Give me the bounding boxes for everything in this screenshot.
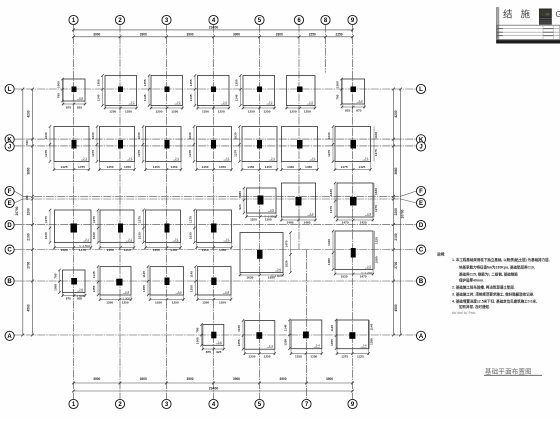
svg-text:1450: 1450 bbox=[153, 248, 160, 252]
svg-text:3900: 3900 bbox=[326, 377, 333, 381]
svg-text:1145: 1145 bbox=[330, 325, 334, 332]
title block bbox=[496, 8, 560, 44]
svg-text:1250: 1250 bbox=[219, 300, 226, 304]
bottom axis bubbles 1-5,7,9 bbox=[69, 399, 78, 408]
svg-text:1525: 1525 bbox=[341, 275, 348, 279]
svg-text:3900: 3900 bbox=[186, 32, 193, 36]
footing J-3 @FE6 bbox=[280, 183, 316, 225]
svg-text:1250: 1250 bbox=[172, 300, 179, 304]
svg-text:1630: 1630 bbox=[285, 260, 289, 267]
svg-text:875: 875 bbox=[66, 297, 71, 301]
footing J-4 @L1 bbox=[57, 78, 87, 110]
footing J-4 @B4 bbox=[190, 265, 233, 304]
svg-text:1145: 1145 bbox=[92, 271, 96, 278]
svg-text:1355: 1355 bbox=[370, 338, 374, 345]
svg-text:2700: 2700 bbox=[26, 261, 30, 268]
svg-text:3300: 3300 bbox=[276, 32, 283, 36]
photo/stamp block bbox=[539, 9, 552, 25]
svg-text:J-1: J-1 bbox=[175, 157, 179, 161]
svg-text:1270: 1270 bbox=[44, 150, 48, 157]
svg-text:J-5: J-5 bbox=[270, 208, 274, 212]
svg-text:J-1: J-1 bbox=[85, 238, 89, 242]
footing J-1 @D2 bbox=[92, 209, 135, 252]
svg-text:1355: 1355 bbox=[237, 339, 241, 346]
svg-text:如有异常, 及时通知.: 如有异常, 及时通知. bbox=[459, 304, 490, 309]
svg-text:1250: 1250 bbox=[290, 109, 297, 113]
svg-text:1005: 1005 bbox=[57, 81, 61, 88]
notes block 说明 bbox=[437, 252, 550, 316]
svg-text:20700: 20700 bbox=[401, 209, 405, 218]
svg-text:L: L bbox=[419, 87, 423, 93]
svg-text:1450: 1450 bbox=[202, 248, 209, 252]
svg-text:2100: 2100 bbox=[26, 233, 30, 240]
footing J-1 @KJ4 bbox=[188, 125, 233, 171]
svg-text:1355: 1355 bbox=[235, 79, 239, 86]
svg-text:C: C bbox=[7, 248, 12, 254]
svg-text:1250: 1250 bbox=[264, 354, 271, 358]
svg-text:1270: 1270 bbox=[374, 205, 378, 212]
svg-text:1320: 1320 bbox=[375, 237, 379, 244]
footing J-4 @A5 bbox=[237, 319, 276, 358]
svg-text:3860: 3860 bbox=[26, 167, 30, 174]
svg-text:J-1: J-1 bbox=[311, 157, 315, 161]
svg-text:1005: 1005 bbox=[336, 81, 340, 88]
title block table bbox=[497, 25, 560, 39]
left overall dimension 20700 bbox=[22, 89, 24, 335]
svg-text:1270: 1270 bbox=[234, 150, 238, 157]
svg-text:1355: 1355 bbox=[284, 339, 288, 346]
svg-text:23400: 23400 bbox=[209, 25, 219, 29]
footing J-1 @KJ2 bbox=[91, 125, 136, 171]
svg-text:1250: 1250 bbox=[202, 109, 209, 113]
svg-text:4200: 4200 bbox=[394, 110, 398, 117]
footing J-2 @L2 bbox=[97, 74, 138, 113]
footing J-1 @KJ9 bbox=[327, 125, 372, 171]
svg-text:1080: 1080 bbox=[375, 256, 379, 263]
svg-text:J-1: J-1 bbox=[225, 157, 229, 161]
svg-text:1630: 1630 bbox=[137, 132, 141, 139]
svg-text:L: L bbox=[8, 87, 12, 93]
svg-text:1460: 1460 bbox=[287, 221, 294, 225]
svg-text:1270: 1270 bbox=[189, 216, 193, 223]
right overall dimension 20700 bbox=[400, 89, 402, 335]
svg-text:3900: 3900 bbox=[140, 32, 147, 36]
svg-text:1270: 1270 bbox=[137, 150, 141, 157]
svg-text:1250: 1250 bbox=[304, 109, 311, 113]
svg-text:1270: 1270 bbox=[91, 150, 95, 157]
footing J-2 @L5 bbox=[235, 74, 276, 113]
svg-text:925: 925 bbox=[345, 108, 350, 112]
svg-text:1250: 1250 bbox=[155, 300, 162, 304]
svg-text:1450: 1450 bbox=[171, 165, 178, 169]
svg-text:1650: 1650 bbox=[268, 276, 275, 280]
horizontal axis grid lines bbox=[14, 88, 416, 90]
svg-text:1250: 1250 bbox=[310, 354, 317, 358]
svg-text:1450: 1450 bbox=[170, 248, 177, 252]
svg-text:1475: 1475 bbox=[341, 165, 348, 169]
svg-text:1460: 1460 bbox=[287, 165, 294, 169]
svg-text:1250: 1250 bbox=[202, 300, 209, 304]
svg-text:1250: 1250 bbox=[249, 354, 256, 358]
svg-text:1630: 1630 bbox=[44, 132, 48, 139]
svg-text:1145: 1145 bbox=[189, 94, 193, 101]
svg-text:1420: 1420 bbox=[61, 248, 68, 252]
svg-text:1470: 1470 bbox=[285, 240, 289, 247]
svg-text:795: 795 bbox=[57, 93, 61, 98]
svg-text:4200: 4200 bbox=[26, 110, 30, 117]
footing J-6 @B1 bbox=[54, 269, 87, 301]
footing J-2 @C9 bbox=[327, 230, 374, 279]
footing J-1 @D3 bbox=[138, 209, 182, 252]
footing J-6 @A4 bbox=[196, 323, 226, 354]
svg-text:1250: 1250 bbox=[122, 300, 129, 304]
svg-text:1275: 1275 bbox=[341, 354, 348, 358]
svg-text:1630: 1630 bbox=[138, 232, 142, 239]
svg-text:1630: 1630 bbox=[327, 132, 331, 139]
svg-text:J: J bbox=[8, 145, 11, 151]
svg-text:1355: 1355 bbox=[97, 79, 101, 86]
svg-text:925: 925 bbox=[216, 350, 221, 354]
svg-text:1450: 1450 bbox=[202, 165, 209, 169]
svg-text:D: D bbox=[419, 223, 424, 229]
svg-text:结施: 结施 bbox=[503, 9, 538, 21]
svg-text:1145: 1145 bbox=[143, 94, 147, 101]
svg-text:1630: 1630 bbox=[329, 189, 333, 196]
svg-text:1450: 1450 bbox=[124, 248, 131, 252]
svg-text:1475: 1475 bbox=[360, 275, 367, 279]
svg-text:2700: 2700 bbox=[394, 261, 398, 268]
svg-text:20700: 20700 bbox=[15, 206, 19, 215]
footing J-1 @KJ1 bbox=[44, 125, 90, 171]
svg-text:1630: 1630 bbox=[44, 232, 48, 239]
svg-text:1630: 1630 bbox=[92, 232, 96, 239]
footing J-1 @KJ3 bbox=[137, 125, 182, 171]
svg-text:3860: 3860 bbox=[394, 167, 398, 174]
svg-text:1355: 1355 bbox=[92, 285, 96, 292]
svg-text:1630: 1630 bbox=[374, 188, 378, 195]
svg-text:3900: 3900 bbox=[93, 377, 100, 381]
svg-text:4. 基础埋置深度≥2.5米下归, 基础定位见建筑施工0.0: 4. 基础埋置深度≥2.5米下归, 基础定位见建筑施工0.0米, bbox=[452, 299, 537, 304]
bottom overall dimension 23400 bbox=[74, 390, 353, 392]
svg-text:1450: 1450 bbox=[265, 165, 272, 169]
footing J-4 @L9 bbox=[336, 78, 366, 113]
svg-text:1270: 1270 bbox=[44, 216, 48, 223]
svg-text:4500: 4500 bbox=[26, 304, 30, 311]
svg-text:1145: 1145 bbox=[284, 324, 288, 331]
svg-text:1250: 1250 bbox=[248, 109, 255, 113]
svg-text:1355: 1355 bbox=[143, 79, 147, 86]
svg-text:1470: 1470 bbox=[79, 248, 86, 252]
svg-text:795: 795 bbox=[196, 327, 200, 332]
svg-text:1460: 1460 bbox=[305, 165, 312, 169]
svg-text:1250: 1250 bbox=[156, 109, 163, 113]
footing J-1 @D1 bbox=[44, 209, 92, 252]
svg-text:1460: 1460 bbox=[304, 221, 311, 225]
svg-text:1475: 1475 bbox=[78, 165, 85, 169]
svg-text:1630: 1630 bbox=[188, 132, 192, 139]
svg-text:3900: 3900 bbox=[186, 377, 193, 381]
svg-text:1250: 1250 bbox=[106, 300, 113, 304]
svg-text:1320: 1320 bbox=[327, 239, 331, 246]
svg-text:1270: 1270 bbox=[329, 206, 333, 213]
svg-text:2200: 2200 bbox=[394, 208, 398, 215]
svg-text:1145: 1145 bbox=[190, 271, 194, 278]
footing J-4 @B3 bbox=[142, 265, 185, 304]
svg-text:220: 220 bbox=[25, 195, 29, 200]
svg-text:1250: 1250 bbox=[295, 354, 302, 358]
svg-text:1270: 1270 bbox=[138, 216, 142, 223]
svg-text:J-1: J-1 bbox=[225, 238, 229, 242]
svg-text:1270: 1270 bbox=[188, 150, 192, 157]
footing J-6 @C5 bbox=[239, 231, 292, 279]
svg-text:3. 基础施工时, 须按规范要求施工, 做好隐蔽验收记录.: 3. 基础施工时, 须按规范要求施工, 做好隐蔽验收记录. bbox=[452, 292, 534, 297]
footing J-2 @L4 bbox=[189, 74, 230, 113]
right dimension chain bbox=[393, 89, 395, 335]
svg-text:1425: 1425 bbox=[61, 165, 68, 169]
svg-text:1450: 1450 bbox=[153, 165, 160, 169]
svg-text:J-3: J-3 bbox=[309, 212, 313, 216]
svg-text:E: E bbox=[419, 201, 423, 207]
svg-text:920: 920 bbox=[238, 204, 242, 209]
svg-text:保护层厚40mm.: 保护层厚40mm. bbox=[458, 278, 484, 283]
svg-text:da’ dml tu’ Pmu: da’ dml tu’ Pmu bbox=[452, 311, 475, 315]
svg-text:875: 875 bbox=[206, 350, 211, 354]
footing J-2 @L3 bbox=[143, 74, 184, 113]
svg-text:A: A bbox=[7, 334, 12, 340]
left axis bubbles bbox=[5, 84, 14, 93]
svg-text:2250: 2250 bbox=[309, 32, 316, 36]
svg-text:1630: 1630 bbox=[189, 232, 193, 239]
svg-text:1450: 1450 bbox=[107, 165, 114, 169]
svg-text:E: E bbox=[8, 201, 12, 207]
svg-text:1450: 1450 bbox=[107, 248, 114, 252]
svg-text:J-1: J-1 bbox=[128, 157, 132, 161]
top overall dimension line 23400 bbox=[74, 29, 353, 31]
svg-text:3900: 3900 bbox=[93, 32, 100, 36]
top interval dimension line bbox=[74, 36, 353, 38]
svg-text:1250: 1250 bbox=[218, 109, 225, 113]
svg-text:2250: 2250 bbox=[335, 32, 342, 36]
top axis bubbles 1-6,8,9 bbox=[69, 15, 78, 24]
right axis bubbles bbox=[416, 84, 425, 93]
svg-text:1425: 1425 bbox=[358, 165, 365, 169]
svg-text:1355: 1355 bbox=[330, 339, 334, 346]
svg-text:1100: 1100 bbox=[265, 218, 272, 222]
svg-text:3900: 3900 bbox=[140, 377, 147, 381]
svg-text:23400: 23400 bbox=[209, 387, 219, 391]
svg-text:1355: 1355 bbox=[142, 285, 146, 292]
svg-text:1355: 1355 bbox=[190, 285, 194, 292]
svg-text:1250: 1250 bbox=[109, 109, 116, 113]
svg-text:J-1: J-1 bbox=[271, 157, 275, 161]
svg-text:4500: 4500 bbox=[394, 304, 398, 311]
svg-text:1450: 1450 bbox=[219, 165, 226, 169]
svg-text:J-1: J-1 bbox=[128, 238, 132, 242]
svg-text:1145: 1145 bbox=[237, 325, 241, 332]
footing J-5 @FE5 bbox=[238, 187, 277, 222]
svg-text:795: 795 bbox=[54, 273, 58, 278]
svg-text:1355: 1355 bbox=[189, 79, 193, 86]
svg-text:地基承载力特征值fak为180Kpa, 基础垫层用C10,: 地基承载力特征值fak为180Kpa, 基础垫层用C10, bbox=[459, 265, 535, 270]
svg-text:J-1: J-1 bbox=[83, 157, 87, 161]
left dimension chain bbox=[32, 89, 34, 335]
svg-text:1450: 1450 bbox=[247, 165, 254, 169]
footing J-1 @KJ5 bbox=[234, 125, 279, 171]
vertical axis grid lines bbox=[73, 25, 75, 400]
svg-text:875: 875 bbox=[356, 108, 361, 112]
svg-text:J: J bbox=[419, 145, 422, 151]
footing J-4 @B2 bbox=[92, 265, 132, 304]
svg-text:935: 935 bbox=[77, 297, 82, 301]
svg-text:3900: 3900 bbox=[233, 377, 240, 381]
svg-text:1145: 1145 bbox=[235, 94, 239, 101]
footing J-4 @A7 bbox=[284, 319, 324, 359]
svg-text:1425: 1425 bbox=[360, 221, 367, 225]
svg-text:1630: 1630 bbox=[374, 132, 378, 139]
svg-text:500: 500 bbox=[25, 140, 29, 145]
svg-text:J-1: J-1 bbox=[364, 157, 368, 161]
footing J-2 @L6 bbox=[285, 76, 316, 114]
svg-text:1450: 1450 bbox=[124, 165, 131, 169]
footing J-1 @KJ6 bbox=[280, 127, 318, 172]
svg-text:F: F bbox=[419, 189, 423, 195]
svg-text:1145: 1145 bbox=[370, 324, 374, 331]
svg-text:1. 本工程基础采用柱下独立基础, 以粉质(粘土层) 为基础: 1. 本工程基础采用柱下独立基础, 以粉质(粘土层) 为基础持力层, bbox=[452, 257, 550, 262]
svg-text:B: B bbox=[419, 279, 424, 285]
svg-text:1145: 1145 bbox=[142, 271, 146, 278]
svg-text:说明:: 说明: bbox=[437, 252, 445, 257]
svg-text:1145: 1145 bbox=[97, 94, 101, 101]
svg-text:基础平面布置图: 基础平面布置图 bbox=[485, 367, 532, 376]
svg-text:795: 795 bbox=[336, 94, 340, 99]
svg-text:D: D bbox=[7, 223, 12, 229]
footing J-3 @FE9 bbox=[329, 182, 374, 225]
svg-text:F: F bbox=[8, 189, 12, 195]
svg-text:1630: 1630 bbox=[234, 132, 238, 139]
svg-text:3900: 3900 bbox=[233, 32, 240, 36]
svg-text:1475: 1475 bbox=[342, 221, 349, 225]
svg-text:1005: 1005 bbox=[196, 337, 200, 344]
svg-text:1100: 1100 bbox=[250, 218, 257, 222]
svg-text:基础用C25, 钢筋为Ⅰ, 二级钢, 基础钢筋: 基础用C25, 钢筋为Ⅰ, 二级钢, 基础钢筋 bbox=[459, 272, 518, 277]
drawing title bbox=[484, 367, 542, 376]
footing J-4 @A9 bbox=[330, 319, 370, 359]
bottom dimension chain 3900 x6 bbox=[74, 382, 353, 384]
svg-text:1250: 1250 bbox=[171, 109, 178, 113]
svg-text:C: C bbox=[419, 248, 424, 254]
svg-text:875: 875 bbox=[66, 106, 71, 110]
svg-text:G: G bbox=[556, 10, 560, 19]
svg-text:925: 925 bbox=[77, 106, 82, 110]
svg-text:B: B bbox=[7, 279, 12, 285]
svg-text:1630: 1630 bbox=[246, 276, 253, 280]
svg-text:1450: 1450 bbox=[219, 248, 226, 252]
svg-text:1250: 1250 bbox=[264, 109, 271, 113]
svg-text:1280: 1280 bbox=[238, 191, 242, 198]
svg-text:1225: 1225 bbox=[357, 354, 364, 358]
svg-text:1270: 1270 bbox=[374, 149, 378, 156]
svg-text:1270: 1270 bbox=[327, 150, 331, 157]
svg-text:J-3: J-3 bbox=[367, 212, 371, 216]
svg-text:2100: 2100 bbox=[394, 233, 398, 240]
svg-text:3900: 3900 bbox=[279, 377, 286, 381]
svg-text:1630: 1630 bbox=[91, 132, 95, 139]
svg-text:1080: 1080 bbox=[327, 258, 331, 265]
footing J-1 @D4 bbox=[189, 209, 233, 252]
svg-text:A: A bbox=[419, 334, 424, 340]
svg-text:J-1: J-1 bbox=[174, 238, 178, 242]
svg-text:1005: 1005 bbox=[54, 284, 58, 291]
svg-text:1250: 1250 bbox=[125, 109, 132, 113]
svg-text:1270: 1270 bbox=[92, 216, 96, 223]
svg-text:2. 基础施工前先验槽, 再浇筑混凝土垫层.: 2. 基础施工前先验槽, 再浇筑混凝土垫层. bbox=[452, 285, 515, 290]
svg-text:2200: 2200 bbox=[26, 208, 30, 215]
